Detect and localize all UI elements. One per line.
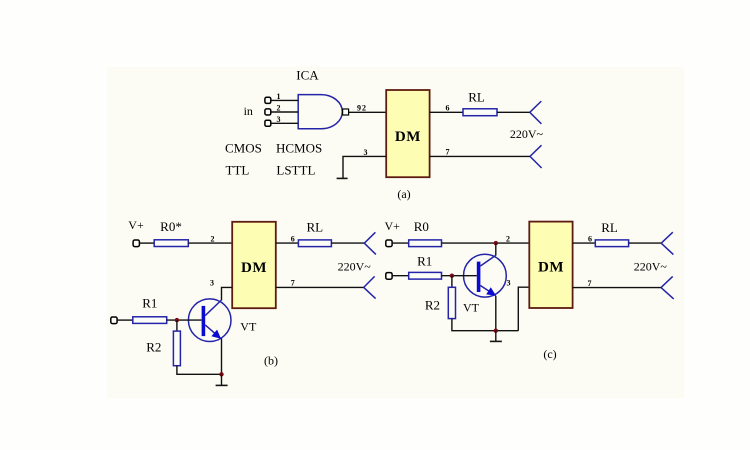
wire R0* to DM pin 2 (b) bbox=[188, 242, 232, 244]
svg-text:220V~: 220V~ bbox=[338, 260, 372, 274]
resistor R2 (c) bbox=[448, 287, 455, 318]
wire junction to R2 (b) bbox=[176, 320, 178, 331]
svg-text:RL: RL bbox=[468, 90, 485, 105]
svg-text:DM: DM bbox=[241, 260, 267, 276]
svg-text:(b): (b) bbox=[264, 354, 278, 368]
svg-text:6: 6 bbox=[291, 235, 295, 244]
wire R1 to base (c) bbox=[442, 275, 477, 277]
wire terminal to R0 (c) bbox=[392, 242, 409, 244]
pasted scan area tint bbox=[107, 67, 684, 398]
wire pin1 to gate bbox=[271, 99, 298, 101]
svg-text:TTL: TTL bbox=[226, 163, 250, 178]
resistor R2 (b) bbox=[173, 331, 180, 366]
svg-text:R0: R0 bbox=[414, 219, 429, 234]
svg-text:7: 7 bbox=[446, 148, 450, 157]
wire emitter down (b) bbox=[221, 339, 223, 375]
DM module (b) bbox=[232, 222, 276, 308]
svg-text:in: in bbox=[244, 104, 253, 118]
wire emitter down (c) bbox=[495, 296, 497, 331]
wire R2 bottom (c) bbox=[452, 319, 518, 331]
svg-text:1: 1 bbox=[277, 92, 281, 101]
wire terminal to R1 (b) bbox=[117, 319, 133, 321]
ground (a) bbox=[337, 177, 348, 179]
input terminal (c base) bbox=[386, 273, 392, 280]
wire DM pin 3 to ground bbox=[343, 156, 386, 178]
terminal V+ (c) bbox=[386, 240, 392, 247]
junction base/R2 (c) bbox=[450, 274, 454, 278]
wire RL to connector (b) bbox=[331, 242, 364, 244]
resistor RL (b) bbox=[298, 240, 331, 247]
wire R2 bottom (b) bbox=[177, 366, 222, 375]
output prong connector (b) bottom bbox=[364, 276, 376, 298]
output prong connector (a) top bbox=[530, 101, 542, 124]
svg-text:3: 3 bbox=[277, 115, 281, 124]
transistor VT (b) circle bbox=[188, 299, 231, 342]
svg-text:220V~: 220V~ bbox=[510, 127, 544, 141]
wire junction to ground (b) bbox=[221, 374, 223, 385]
wire up to DM pin 3 (c) bbox=[518, 287, 529, 331]
wire DM pin 7 to lower connector bbox=[430, 155, 530, 157]
svg-text:RL: RL bbox=[601, 220, 618, 235]
gate input terminal pin3 bbox=[265, 120, 271, 126]
output prong connector (b) top bbox=[364, 232, 376, 254]
output prong connector (a) bottom bbox=[530, 145, 542, 168]
svg-text:R2: R2 bbox=[146, 339, 161, 354]
svg-text:ICA: ICA bbox=[296, 68, 319, 83]
svg-text:3: 3 bbox=[210, 279, 214, 288]
wire RL to output connector bbox=[497, 111, 530, 113]
svg-text:VT: VT bbox=[240, 319, 257, 333]
wire junction to collector (c) bbox=[495, 243, 497, 255]
svg-text:(a): (a) bbox=[397, 187, 410, 201]
svg-text:220V~: 220V~ bbox=[634, 259, 668, 273]
resistor R0* bbox=[154, 240, 188, 247]
transistor VT (c) emitter stroke bbox=[480, 286, 495, 296]
wire terminal to R1 (c) bbox=[392, 275, 409, 277]
svg-text:RL: RL bbox=[306, 220, 323, 235]
svg-text:V+: V+ bbox=[128, 218, 144, 232]
svg-text:2: 2 bbox=[211, 235, 215, 244]
svg-text:3: 3 bbox=[364, 148, 368, 157]
ground (b) bbox=[216, 384, 228, 386]
transistor VT (b) base bar bbox=[202, 306, 206, 336]
transistor VT (c) collector stroke bbox=[480, 255, 496, 266]
junction base/R2 (b) bbox=[175, 318, 179, 322]
svg-text:7: 7 bbox=[588, 279, 592, 288]
gate U1 ICA (3-input NAND) bbox=[298, 95, 342, 129]
resistor RL (c) bbox=[595, 240, 628, 247]
svg-text:R0*: R0* bbox=[160, 219, 182, 234]
wire R0 to DM pin 2 (c) bbox=[442, 242, 530, 244]
svg-text:LSTTL: LSTTL bbox=[276, 163, 315, 178]
DM module (c) bbox=[529, 222, 572, 308]
resistor R0 (c) bbox=[409, 240, 442, 247]
output prong connector (c) top bbox=[661, 232, 673, 254]
transistor VT (b) emitter arrow bbox=[211, 330, 221, 339]
junction emitter/ground (c) bbox=[494, 329, 498, 333]
terminal V+ (b) bbox=[133, 240, 139, 247]
wire DM pin 7 (c) bbox=[573, 287, 661, 289]
svg-text:2: 2 bbox=[277, 104, 281, 113]
wire DM pin 3 (b) bbox=[222, 287, 233, 300]
wire DM pin 7 (b) bbox=[276, 286, 364, 288]
svg-text:DM: DM bbox=[395, 129, 421, 145]
svg-text:VT: VT bbox=[463, 301, 480, 315]
wire terminal to R0* bbox=[139, 242, 154, 244]
wire junction to R2 (c) bbox=[451, 276, 453, 288]
svg-text:2: 2 bbox=[506, 235, 510, 244]
svg-text:V+: V+ bbox=[384, 219, 400, 233]
svg-text:6: 6 bbox=[588, 235, 592, 244]
svg-text:(c): (c) bbox=[543, 347, 556, 361]
svg-text:CMOS: CMOS bbox=[225, 141, 262, 156]
wire R1 to base (b) bbox=[167, 319, 202, 321]
gate input terminal pin2 bbox=[265, 109, 271, 115]
wire DM pin 6 to RL (b) bbox=[276, 242, 299, 244]
wire DM pin 6 to RL (c) bbox=[573, 242, 596, 244]
svg-text:92: 92 bbox=[357, 103, 367, 112]
transistor VT (b) emitter stroke bbox=[205, 325, 221, 339]
DM module (a) bbox=[386, 90, 429, 177]
input terminal (b base) bbox=[111, 317, 117, 324]
gate input terminal pin1 bbox=[265, 97, 271, 103]
svg-text:R1: R1 bbox=[142, 295, 157, 310]
wire pin3 to gate bbox=[271, 122, 298, 124]
transistor VT (c) base bar bbox=[477, 262, 481, 292]
svg-text:6: 6 bbox=[446, 103, 450, 112]
resistor R1 (b) bbox=[133, 317, 167, 324]
transistor VT (b) collector stroke bbox=[205, 300, 221, 316]
svg-text:3: 3 bbox=[507, 279, 511, 288]
svg-text:R1: R1 bbox=[417, 254, 432, 269]
junction collector (c) bbox=[494, 241, 498, 245]
transistor VT (c) circle bbox=[464, 254, 507, 297]
svg-text:R2: R2 bbox=[425, 297, 440, 312]
resistor RL (a) bbox=[463, 109, 497, 116]
wire pin2 to gate bbox=[271, 111, 298, 113]
junction emitter/ground (b) bbox=[219, 372, 223, 376]
output prong connector (c) bottom bbox=[661, 276, 674, 299]
gate output bubble bbox=[343, 109, 349, 115]
svg-text:DM: DM bbox=[538, 260, 564, 276]
ground (c) bbox=[490, 340, 502, 342]
svg-text:7: 7 bbox=[291, 279, 295, 288]
wire RL to connector (c) bbox=[629, 242, 662, 244]
transistor VT (c) emitter arrow bbox=[486, 287, 496, 296]
wire junction to ground (c) bbox=[495, 331, 497, 342]
svg-text:HCMOS: HCMOS bbox=[276, 141, 322, 156]
wire DM pin 6 to RL bbox=[430, 111, 463, 113]
wire gate output to DM pin 2 bbox=[349, 111, 386, 113]
resistor R1 (c) bbox=[409, 272, 442, 279]
